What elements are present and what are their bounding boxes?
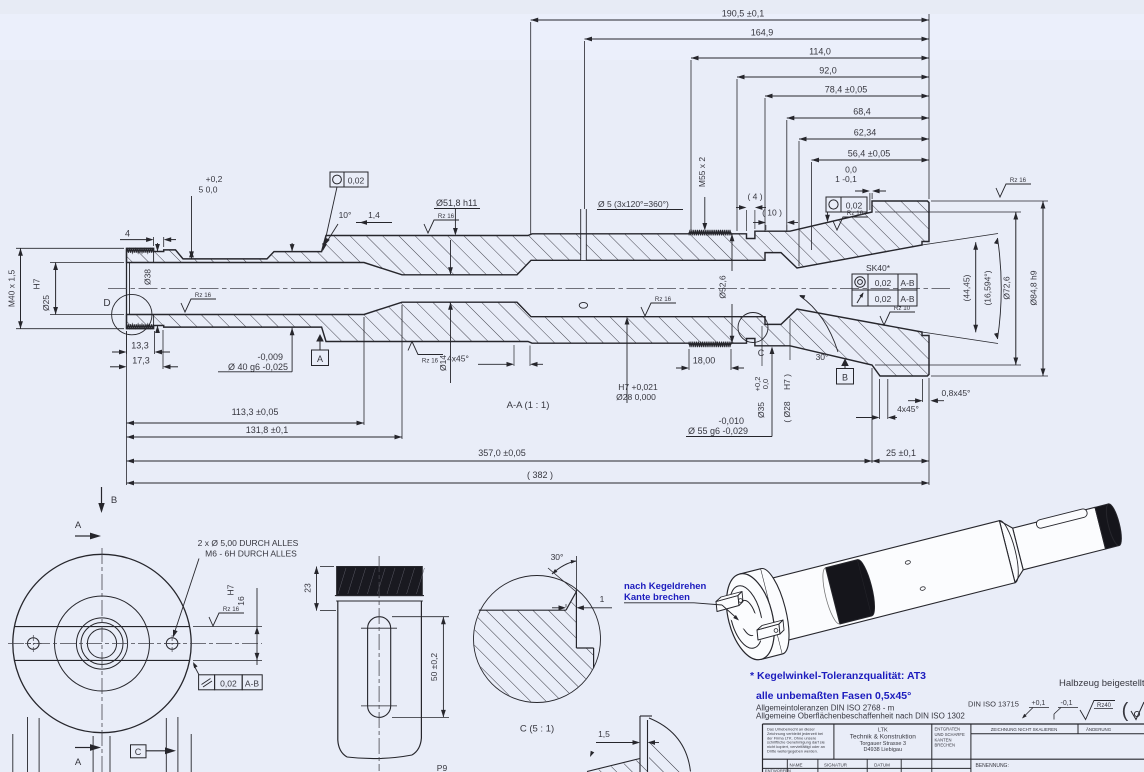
cone extension lines for gauge dims bbox=[922, 234, 998, 246]
svg-text:* Kegelwinkel-Toleranzqualität: * Kegelwinkel-Toleranzqualität: AT3 bbox=[750, 670, 926, 682]
svg-text:D4938 Liebigau: D4938 Liebigau bbox=[864, 747, 903, 753]
dimension (382) overall bbox=[127, 482, 930, 484]
front view: boss circle bbox=[55, 596, 150, 691]
svg-text:68,4: 68,4 bbox=[853, 107, 871, 117]
svg-text:113,3 ±0,05: 113,3 ±0,05 bbox=[232, 407, 279, 417]
svg-text:23: 23 bbox=[303, 583, 313, 593]
svg-text:(44,45): (44,45) bbox=[962, 274, 972, 301]
svg-text:131,8 ±0,1: 131,8 ±0,1 bbox=[246, 425, 288, 435]
surface symbol Rz16 front view bbox=[209, 613, 244, 626]
dimension 23 thread length bbox=[320, 566, 334, 568]
isometric flange slot tabs bbox=[716, 592, 784, 641]
svg-text:0,0: 0,0 bbox=[845, 165, 857, 175]
svg-text:ÄNDERUNG: ÄNDERUNG bbox=[1086, 727, 1112, 732]
svg-text:0,02: 0,02 bbox=[875, 294, 892, 304]
svg-text:P9: P9 bbox=[437, 763, 448, 772]
svg-text:SIGNATUR: SIGNATUR bbox=[824, 762, 848, 767]
svg-text:M55 x 2: M55 x 2 bbox=[697, 157, 707, 188]
view B: centerline bbox=[378, 556, 380, 771]
partial detail: relief groove bbox=[639, 716, 641, 772]
svg-text:-0,1: -0,1 bbox=[1061, 700, 1073, 707]
svg-text:114,0: 114,0 bbox=[809, 47, 831, 57]
svg-text:Ø51,8 h11: Ø51,8 h11 bbox=[436, 198, 477, 208]
thread M40 crest band bottom bbox=[127, 325, 154, 329]
svg-text:(: ( bbox=[1122, 700, 1129, 722]
surface symbol Rz16 on diameter 51,8 bbox=[424, 220, 459, 233]
svg-text:DIN ISO 13715: DIN ISO 13715 bbox=[968, 700, 1019, 709]
svg-text:357,0 ±0,05: 357,0 ±0,05 bbox=[478, 448, 525, 458]
svg-text:NAME: NAME bbox=[789, 762, 802, 767]
front view: bore circles bbox=[76, 618, 127, 669]
svg-text:30°: 30° bbox=[551, 552, 564, 562]
dimension Ø14 bore bbox=[450, 240, 452, 274]
datum A flag bbox=[316, 334, 324, 342]
svg-text:25 ±0,1: 25 ±0,1 bbox=[886, 448, 916, 458]
svg-text:Rz 16: Rz 16 bbox=[223, 606, 240, 613]
svg-text:0,02: 0,02 bbox=[875, 278, 892, 288]
svg-text:Rz 16: Rz 16 bbox=[847, 210, 864, 217]
svg-text:( 4 ): ( 4 ) bbox=[747, 192, 762, 202]
svg-text:A: A bbox=[317, 354, 323, 364]
dimension 62,34 bbox=[799, 138, 929, 140]
svg-text:-0,010: -0,010 bbox=[718, 416, 744, 426]
svg-text:4x45°: 4x45° bbox=[447, 354, 469, 364]
dimension 25 ±0,1 bbox=[872, 460, 929, 462]
surface symbol Rz16 on seat bbox=[833, 217, 868, 230]
dimension 92,0 bbox=[737, 76, 929, 78]
svg-text:C: C bbox=[135, 747, 142, 757]
radial hole Ø5 in wall bbox=[581, 235, 587, 260]
isometric 3D view of shaft bbox=[718, 481, 1130, 665]
section arrows A-A on front view bbox=[75, 535, 91, 537]
svg-text:C (5 : 1): C (5 : 1) bbox=[520, 724, 554, 735]
front view: outer flange circle bbox=[13, 554, 191, 732]
svg-text:92,0: 92,0 bbox=[819, 66, 837, 76]
svg-text:nach Kegeldrehen: nach Kegeldrehen bbox=[624, 581, 707, 592]
front view: slot edges 16 H7 bbox=[15, 626, 190, 628]
svg-text:B: B bbox=[111, 495, 117, 506]
svg-text:A-B: A-B bbox=[900, 278, 915, 288]
detail C: boundary circle bbox=[474, 576, 601, 703]
dimension 113,3 bbox=[127, 422, 365, 424]
svg-text:50 ±0,2: 50 ±0,2 bbox=[429, 653, 439, 682]
thread M55 crest band top bbox=[689, 230, 731, 235]
svg-text:Rz 16: Rz 16 bbox=[195, 292, 212, 299]
svg-text:Ø 5 (3x120°=360°): Ø 5 (3x120°=360°) bbox=[598, 199, 669, 209]
svg-text:Ø84,8 h9: Ø84,8 h9 bbox=[1029, 270, 1039, 305]
svg-text:-0,009: -0,009 bbox=[257, 352, 283, 362]
svg-text:ENTWORFEN: ENTWORFEN bbox=[765, 768, 791, 772]
thread M40 relief lines bbox=[153, 248, 155, 262]
svg-text:A: A bbox=[75, 520, 82, 531]
svg-text:+0,2: +0,2 bbox=[206, 174, 223, 184]
svg-text:BRECHEN: BRECHEN bbox=[935, 743, 955, 748]
svg-text:ZEICHNUNG NICHT SKALIEREN: ZEICHNUNG NICHT SKALIEREN bbox=[991, 727, 1058, 732]
view B: body outline bbox=[338, 601, 347, 757]
roundness tolerance frame 0,02 right bbox=[826, 197, 841, 212]
svg-text:H7 +0,021: H7 +0,021 bbox=[618, 382, 658, 392]
front view: bolt hole left bbox=[28, 638, 40, 650]
svg-text:Rz 16: Rz 16 bbox=[1010, 177, 1027, 184]
svg-text:alle unbemaßten Fasen 0,5x45°: alle unbemaßten Fasen 0,5x45° bbox=[756, 690, 911, 702]
svg-text:Ø 40 g6 -0,025: Ø 40 g6 -0,025 bbox=[228, 362, 288, 372]
svg-text:78,4 ±0,05: 78,4 ±0,05 bbox=[825, 85, 867, 95]
surface symbol Rz16 in bore 28 bbox=[641, 303, 676, 316]
svg-text:0,02: 0,02 bbox=[220, 678, 237, 688]
svg-text:C: C bbox=[758, 348, 765, 358]
dimension 131,8 bbox=[127, 436, 403, 438]
svg-text:1: 1 bbox=[600, 594, 605, 604]
dimension 68,4 bbox=[787, 117, 929, 119]
dimension Ø25 H7 bbox=[50, 262, 124, 264]
surface symbol Rz16 under diameter 40 bbox=[408, 342, 443, 355]
svg-text:2 x Ø 5,00 DURCH ALLES: 2 x Ø 5,00 DURCH ALLES bbox=[198, 538, 299, 548]
datum B flag bbox=[841, 359, 849, 367]
dimension 78,4 ±0,05 bbox=[765, 95, 929, 97]
roundness tolerance frame 0,02 left bbox=[330, 172, 344, 187]
detail circle C marker bbox=[738, 313, 768, 343]
title block frame bbox=[763, 723, 1144, 725]
extension lines of top chain bbox=[530, 22, 532, 234]
surface symbol Rz40 bbox=[1080, 701, 1115, 720]
front view: centerlines bbox=[101, 548, 103, 772]
svg-text:0,02: 0,02 bbox=[846, 200, 863, 210]
view B: keyway slot P9 bbox=[368, 617, 391, 718]
parallelism frame 0,02 A-B bbox=[199, 675, 215, 690]
dimension 357,0 bbox=[127, 460, 873, 462]
section arrow B below main view bbox=[101, 487, 103, 505]
svg-text:Ø35: Ø35 bbox=[756, 402, 766, 418]
front view: bolt hole right bbox=[166, 638, 178, 650]
svg-text:164,9: 164,9 bbox=[751, 28, 774, 38]
svg-text:Ø72,6: Ø72,6 bbox=[1002, 276, 1012, 299]
svg-text:Ø 55 g6 -0,029: Ø 55 g6 -0,029 bbox=[688, 426, 748, 436]
view C arrow box bbox=[131, 745, 147, 758]
svg-text:Rz 16: Rz 16 bbox=[438, 213, 455, 220]
svg-text:Rz 16: Rz 16 bbox=[422, 358, 439, 365]
svg-text:Technik & Konstruktion: Technik & Konstruktion bbox=[850, 734, 917, 741]
svg-text:0,8x45°: 0,8x45° bbox=[942, 388, 971, 398]
svg-text:KANTEN: KANTEN bbox=[935, 737, 952, 742]
front view: projection lines downward bbox=[12, 734, 14, 772]
svg-text:4x45°: 4x45° bbox=[897, 404, 919, 414]
svg-text:Kante brechen: Kante brechen bbox=[624, 592, 690, 603]
svg-text:(16,594°): (16,594°) bbox=[983, 270, 993, 305]
svg-text:16: 16 bbox=[236, 596, 246, 606]
svg-text:B: B bbox=[842, 373, 848, 383]
svg-text:M40 x 1,5: M40 x 1,5 bbox=[7, 270, 17, 308]
svg-text:190,5 ±0,1: 190,5 ±0,1 bbox=[722, 9, 764, 19]
svg-text:1,5: 1,5 bbox=[598, 729, 610, 739]
svg-text:( 382 ): ( 382 ) bbox=[527, 470, 553, 480]
dimension 50 ±0,2 slot bbox=[392, 616, 449, 618]
bore relief line at left face bbox=[129, 263, 131, 315]
main section view A-A: upper half material bbox=[127, 201, 930, 275]
main section view A-A: lower half material bbox=[127, 302, 930, 376]
svg-text:A-A (1 : 1): A-A (1 : 1) bbox=[507, 400, 550, 411]
svg-text:Ø38: Ø38 bbox=[143, 269, 153, 285]
svg-text:17,3: 17,3 bbox=[132, 356, 150, 366]
svg-text:H7 ): H7 ) bbox=[782, 374, 792, 390]
svg-text:Allgemeine Oberflächenbeschaff: Allgemeine Oberflächenbeschaffenheit nac… bbox=[756, 712, 965, 721]
svg-text:56,4 ±0,05: 56,4 ±0,05 bbox=[848, 149, 890, 159]
surface symbol Rz16 in bore 25 bbox=[181, 299, 216, 312]
svg-text:+0,1: +0,1 bbox=[1032, 700, 1046, 707]
svg-text:5 0,0: 5 0,0 bbox=[199, 185, 218, 195]
surface symbol Rz16 top right bbox=[996, 184, 1031, 197]
svg-text:1,4: 1,4 bbox=[368, 210, 380, 220]
detail C: profile edges bbox=[479, 609, 566, 611]
svg-text:H7: H7 bbox=[32, 278, 42, 289]
svg-text:Ø28 0,000: Ø28 0,000 bbox=[616, 392, 656, 402]
svg-text:0,0: 0,0 bbox=[761, 379, 770, 389]
dimension 164,9 bbox=[585, 38, 930, 40]
view B: neck lines under thread bbox=[335, 595, 424, 597]
view B: thread section black band bbox=[337, 567, 423, 596]
centerline of shaft bbox=[108, 288, 950, 290]
svg-text:A-B: A-B bbox=[900, 294, 915, 304]
svg-text:18,00: 18,00 bbox=[693, 356, 716, 366]
svg-text:Halbzeug beigestellt: Halbzeug beigestellt bbox=[1059, 678, 1144, 689]
svg-text:M6 - 6H DURCH ALLES: M6 - 6H DURCH ALLES bbox=[205, 549, 297, 559]
svg-text:62,34: 62,34 bbox=[854, 128, 877, 138]
svg-text:30°: 30° bbox=[816, 352, 829, 362]
svg-text:Rz 10: Rz 10 bbox=[894, 305, 911, 312]
detail circle D bbox=[112, 294, 152, 334]
svg-text:Dritte weitergegeben werden.: Dritte weitergegeben werden. bbox=[767, 749, 818, 754]
dimension M40 x 1,5 bbox=[16, 247, 124, 249]
dimension 56,4 ±0,05 bbox=[812, 159, 930, 161]
svg-text:4: 4 bbox=[125, 229, 130, 239]
svg-text:Ø52,6: Ø52,6 bbox=[718, 275, 728, 298]
svg-text:ENTGRATEN: ENTGRATEN bbox=[935, 727, 961, 732]
dimension 114,0 bbox=[691, 57, 929, 59]
tolerance frame stack concentricity / runout A-B bbox=[852, 274, 868, 290]
svg-text:Rz40: Rz40 bbox=[1097, 703, 1112, 709]
svg-text:( 10 ): ( 10 ) bbox=[762, 208, 782, 218]
thread M55 crest band bottom bbox=[689, 342, 731, 347]
svg-text:DATUM: DATUM bbox=[874, 762, 890, 767]
svg-text:UND SCHARFE: UND SCHARFE bbox=[935, 732, 965, 737]
svg-text:Rz 16: Rz 16 bbox=[655, 296, 672, 303]
svg-text:0,02: 0,02 bbox=[348, 175, 365, 185]
svg-text:( Ø28: ( Ø28 bbox=[782, 401, 792, 423]
svg-text:Ø25: Ø25 bbox=[41, 295, 51, 311]
svg-text:A: A bbox=[75, 757, 82, 768]
svg-text:A-B: A-B bbox=[245, 678, 260, 688]
surface symbol Rz10 on cone bbox=[880, 312, 915, 325]
thread M40 crest band top bbox=[127, 248, 154, 252]
svg-text:H7: H7 bbox=[226, 584, 236, 595]
svg-text:D: D bbox=[103, 298, 110, 309]
svg-text:1 -0,1: 1 -0,1 bbox=[835, 174, 857, 184]
svg-text:13,3: 13,3 bbox=[131, 341, 149, 351]
svg-text:SK40*: SK40* bbox=[866, 263, 891, 273]
svg-text:BENENNUNG:: BENENNUNG: bbox=[976, 763, 1009, 769]
svg-text:10°: 10° bbox=[339, 210, 352, 220]
left face line bbox=[126, 248, 128, 328]
dimension 190,5 ±0,1 bbox=[531, 19, 929, 21]
